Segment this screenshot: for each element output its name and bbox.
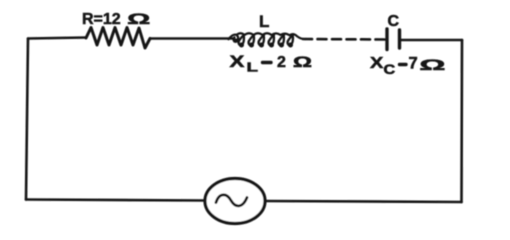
svg-text:2: 2 — [277, 54, 286, 71]
inductor L1 loop 6 — [288, 35, 293, 45]
svg-text:X: X — [230, 53, 245, 72]
svg-text:X: X — [370, 54, 383, 72]
svg-text:Ω: Ω — [127, 12, 150, 28]
wire left vertical — [26, 39, 28, 200]
label XC: equals dash — [400, 63, 407, 66]
inductor L1 ink blobs — [234, 39, 293, 48]
svg-text:R=12: R=12 — [82, 11, 121, 28]
inductor L1 top scribble — [229, 33, 307, 39]
inductor L1 loop 3 — [259, 35, 264, 45]
wire bottom right segment — [266, 201, 462, 202]
inductor L1 loop 2 — [249, 35, 254, 45]
label XL: equals dash — [263, 61, 272, 64]
ac source V1 — [205, 179, 265, 224]
wire capacitor to top-right corner — [400, 39, 463, 42]
wire top-left segment — [28, 38, 86, 39]
capacitor C1 right plate — [398, 30, 401, 48]
svg-text:Ω: Ω — [420, 56, 446, 73]
wire dashed inductor to capacitor — [303, 38, 385, 41]
inductor L1 loop 5 — [279, 35, 284, 45]
svg-text:L: L — [259, 12, 269, 31]
wire bottom left segment — [26, 200, 205, 201]
svg-text:C: C — [388, 13, 400, 30]
svg-text:L: L — [247, 60, 259, 74]
inductor L1 loop 4 — [269, 35, 274, 45]
resistor R1 — [86, 28, 150, 49]
svg-text:C: C — [384, 63, 396, 77]
ac source sine symbol — [216, 195, 247, 206]
inductor L1 start loop — [234, 35, 239, 42]
svg-text:7: 7 — [409, 55, 418, 73]
wire resistor to inductor — [150, 37, 233, 40]
wire right vertical — [460, 40, 463, 202]
inductor L1 loop 1 — [239, 35, 244, 45]
svg-text:Ω: Ω — [293, 54, 312, 71]
capacitor C1 left plate — [385, 29, 388, 50]
